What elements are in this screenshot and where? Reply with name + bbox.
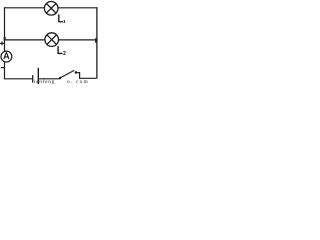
- junction tick right: [95, 38, 97, 43]
- lamp L2: [45, 33, 59, 47]
- polarity plus: [0, 41, 4, 45]
- watermark: [34, 78, 89, 85]
- wire middle branch: [5, 39, 97, 41]
- wire left edge: [4, 7, 6, 79]
- ammeter A: [1, 51, 12, 62]
- polarity minus: [1, 67, 4, 69]
- wire battery to switch: [39, 78, 60, 80]
- wire top edge: [5, 7, 97, 9]
- label L1: [58, 14, 65, 22]
- wire switch to bottom right corner: [77, 73, 97, 79]
- label L2: [58, 46, 66, 54]
- svg-text:o. com: o. com: [67, 79, 89, 84]
- switch S: [59, 70, 77, 79]
- battery: [33, 68, 39, 84]
- lamp L1: [44, 2, 58, 16]
- junction tick left: [4, 37, 6, 41]
- wire bottom left (to battery): [4, 78, 32, 80]
- wire right edge: [96, 7, 98, 78]
